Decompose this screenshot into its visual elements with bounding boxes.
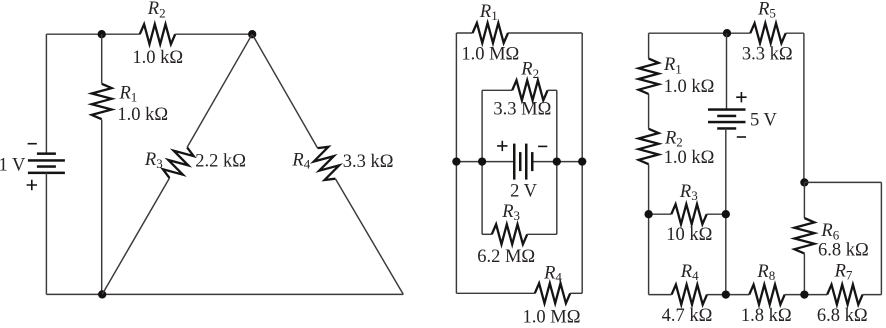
wire: left edge above battery xyxy=(45,34,47,154)
wire: middle outer bottom rail right xyxy=(570,292,582,294)
resistor R4 (right) xyxy=(672,285,707,305)
svg-text:3.3 kΩ: 3.3 kΩ xyxy=(343,152,394,172)
node: battery row outer-right xyxy=(578,157,586,165)
wire: bottom rail left stub xyxy=(649,294,672,296)
svg-text:1.0 kΩ: 1.0 kΩ xyxy=(664,148,715,168)
wire: top rail right of R2 to apex xyxy=(175,33,252,35)
resistor R2 xyxy=(140,24,175,44)
svg-text:3.3 kΩ: 3.3 kΩ xyxy=(742,45,793,65)
wire: battery row left xyxy=(456,161,514,163)
svg-text:5 V: 5 V xyxy=(750,111,778,131)
wire: middle outer top rail right xyxy=(508,32,582,34)
minus sign (5V battery) xyxy=(737,136,746,138)
wire: bottom rail xyxy=(46,293,403,295)
node: bottom junction R8/R7 xyxy=(800,290,808,298)
wire: middle inner left edge xyxy=(481,90,483,234)
resistor R3 xyxy=(163,147,194,178)
battery VS 1V xyxy=(37,152,56,155)
wire: left edge top segment xyxy=(648,33,650,58)
wire: left edge below R2 xyxy=(648,164,650,294)
wire: right diagonal upper segment xyxy=(252,34,317,148)
wire: middle outer bottom rail left xyxy=(456,292,534,294)
node: bottom junction R4/R8 xyxy=(722,290,730,298)
wire: middle inner top rail left xyxy=(482,89,512,91)
wire: middle branch above battery xyxy=(726,33,728,109)
node: R3 left junction xyxy=(644,210,652,218)
svg-text:3.3 MΩ: 3.3 MΩ xyxy=(493,100,551,120)
wire: far-right loop edge xyxy=(880,182,882,294)
svg-text:1 V: 1 V xyxy=(0,155,26,175)
svg-text:1.0 MΩ: 1.0 MΩ xyxy=(461,45,519,65)
svg-text:6.8 kΩ: 6.8 kΩ xyxy=(817,306,868,326)
resistor R1 (right) xyxy=(639,59,659,94)
resistor R3 (right) xyxy=(671,204,706,224)
wire: middle outer top rail left xyxy=(456,32,472,34)
svg-text:1.0 kΩ: 1.0 kΩ xyxy=(664,77,715,97)
resistor R2 (right) xyxy=(639,129,659,164)
plus sign (2V battery) xyxy=(497,141,507,151)
wire: R1 branch upper xyxy=(101,34,103,83)
wire: middle branch below battery xyxy=(725,128,727,294)
wire: middle inner bottom rail left xyxy=(482,233,492,235)
svg-text:1.0 kΩ: 1.0 kΩ xyxy=(117,105,168,125)
svg-text:1.8 kΩ: 1.8 kΩ xyxy=(741,306,792,326)
resistor R5 xyxy=(750,23,785,43)
svg-text:1.0 MΩ: 1.0 MΩ xyxy=(523,308,581,328)
wire: middle inner bottom rail right xyxy=(527,233,557,235)
wire: left diagonal lower segment xyxy=(102,178,169,294)
svg-text:10 kΩ: 10 kΩ xyxy=(666,225,712,245)
minus sign (2V battery) xyxy=(538,145,547,147)
battery VS 5V xyxy=(708,108,746,111)
svg-text:6.8 kΩ: 6.8 kΩ xyxy=(818,241,869,261)
wire: middle inner right edge xyxy=(556,90,558,234)
node: bottom junction xyxy=(98,290,106,298)
svg-text:2 V: 2 V xyxy=(510,182,538,202)
wire: middle inner top rail right xyxy=(548,89,557,91)
wire: right edge below R6 xyxy=(803,254,805,295)
node: R6 top junction xyxy=(800,178,808,186)
node: battery row inner-right xyxy=(553,157,561,165)
resistor R6 xyxy=(794,218,814,253)
node: top-left junction xyxy=(98,30,106,38)
wire: left circuit top rail xyxy=(46,33,139,35)
wire: bottom rail between R8 and R7 xyxy=(785,294,828,296)
resistor R1 (middle) xyxy=(473,23,508,43)
wire: left edge between R1 and R2 xyxy=(648,94,650,129)
node: battery row inner-left xyxy=(478,157,486,165)
wire: right edge between node and R6 xyxy=(803,182,805,218)
wire: right edge top segment xyxy=(803,33,805,182)
node: top junction xyxy=(723,29,731,37)
wire: middle outer right edge xyxy=(581,33,583,293)
wire: R1 branch lower xyxy=(101,120,103,295)
wire: left diagonal upper segment xyxy=(187,34,252,147)
svg-text:6.2 MΩ: 6.2 MΩ xyxy=(477,247,535,267)
wire: right diagonal lower segment xyxy=(335,179,403,295)
svg-text:4.7 kΩ: 4.7 kΩ xyxy=(662,306,713,326)
resistor R7 xyxy=(827,285,862,305)
wire: far-right loop top xyxy=(804,181,881,183)
wire: right circuit top rail right xyxy=(786,32,804,34)
plus sign (1V battery) xyxy=(27,180,37,190)
wire: middle outer left edge xyxy=(455,33,457,293)
svg-text:1.0 kΩ: 1.0 kΩ xyxy=(132,48,183,68)
wire: left edge below battery xyxy=(45,173,47,295)
wire: R3 row right stub xyxy=(707,213,726,215)
resistor R8 xyxy=(749,285,784,305)
wire: bottom rail between R4 and R8 xyxy=(707,294,749,296)
wire: battery row right xyxy=(532,161,582,163)
node: apex junction xyxy=(248,30,256,38)
resistor R1 xyxy=(92,84,112,119)
resistor R2 (middle) xyxy=(512,80,547,100)
resistor R4 (middle) xyxy=(535,283,570,303)
resistor R4 xyxy=(314,147,339,180)
node: battery row outer-left xyxy=(452,157,460,165)
resistor R3 (middle) xyxy=(492,224,527,244)
wire: right circuit top rail left xyxy=(649,32,751,34)
minus sign (1V battery) xyxy=(28,143,37,145)
node: R3 right junction xyxy=(722,210,730,218)
svg-text:2.2 kΩ: 2.2 kΩ xyxy=(195,151,246,171)
plus sign (5V battery) xyxy=(736,92,746,102)
battery VS 2V xyxy=(513,144,516,180)
wire: bottom rail right stub xyxy=(863,294,882,296)
wire: R3 row left stub xyxy=(649,213,672,215)
